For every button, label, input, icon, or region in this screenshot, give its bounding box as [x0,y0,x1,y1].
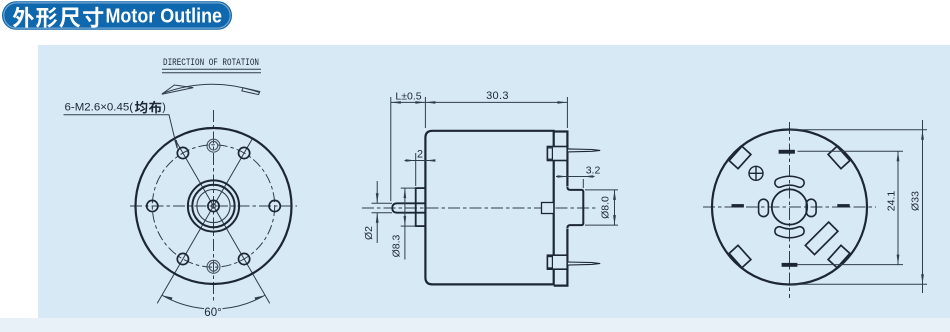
bearing bushing rear (side view) [567,187,583,228]
pilot hole (double circle) [207,260,220,273]
mounting hole M2.6 at 240 deg [177,253,188,264]
svg-text:): ) [162,102,166,114]
svg-text:2: 2 [417,149,423,161]
front view spoke at 60 deg [214,138,254,206]
dimension dia 8.3 (boss) [401,187,416,189]
svg-text:Ø2: Ø2 [363,226,375,240]
shaft (side view) [392,203,425,212]
rotation arrowhead (open) [162,85,194,94]
motor body (side view) [425,131,553,285]
svg-text:DIRECTION OF ROTATION: DIRECTION OF ROTATION [163,58,259,69]
svg-text:6-M2.6×0.45(: 6-M2.6×0.45( [65,102,134,114]
title badge inner highlight [4,3,230,28]
upper-right clip tab [828,146,850,168]
rotation arrow tail flag [242,88,260,95]
front view spoke at 120 deg [174,138,214,206]
bottom terminal clip [547,255,567,269]
front view bolt circle (dash-dot) [152,145,274,267]
rear view horizontal centerline [703,206,876,208]
mounting hole M2.6 at 120 deg [177,147,188,158]
positive terminal mark [749,166,763,180]
front view vertical centerline [213,110,215,302]
bottom curved slot [775,227,804,238]
front view spoke at 240 deg [157,206,213,303]
svg-text:Ø8.0: Ø8.0 [600,196,612,219]
motor flange outer circle (front view) [136,128,292,284]
mounting hole M2.6 at 300 deg [239,253,250,264]
60 degree dimension arc [162,295,204,308]
dimension 30.3 [566,97,568,128]
west vent slot (filled) [732,204,744,207]
side view centerline [362,207,596,209]
light blue drawing panel [38,45,950,318]
dimension 24.1 [797,150,903,152]
dimension 2 (boss length) [415,153,417,186]
svg-text:60°: 60° [204,307,221,319]
front view spoke at 300 deg [214,206,270,303]
lower-right clip tab [828,245,850,267]
rotation direction arc arrow [163,84,260,93]
title badge [2,1,232,30]
mounting hole M2.6 at 60 deg [239,147,250,158]
dimension L+-0.5 [390,97,392,201]
mounting hole M2.6 at 180 deg [147,200,158,211]
shaft boss outer circle [188,180,239,231]
internal bearing rectangle [542,203,554,214]
svg-text:30.3: 30.3 [486,90,509,102]
top terminal clip [547,147,567,161]
lower-left clip tab [729,245,751,267]
double underline [162,68,261,70]
east vent slot (filled) [837,204,849,207]
svg-text:Motor Outline: Motor Outline [106,6,223,28]
upper-left clip tab [729,146,751,168]
right oval slot [806,199,816,216]
leader line for hole label [64,115,178,148]
svg-text:Ø33: Ø33 [910,191,922,211]
mounting hole M2.6 at 0 deg [269,200,280,211]
shaft boss inner circle [197,189,230,222]
shaft boss second circle [192,185,234,227]
bottom light band [0,318,950,332]
svg-text:L±0.5: L±0.5 [395,91,421,103]
dimension dia 2 (shaft) [372,202,393,204]
dimension dia 8.0 (bushing) [585,189,618,191]
top curved slot [775,176,804,187]
front boss (side view) [416,188,426,226]
shaft circle [208,200,219,211]
svg-text:Ø8.3: Ø8.3 [391,234,403,257]
shaft center ring [211,204,215,208]
dimension 3.2 (bushing length) [582,179,584,188]
bottom terminal pin [567,262,600,265]
svg-text:3.2: 3.2 [586,165,601,177]
brush card rectangle (rotated) [805,222,838,255]
rear cover outer circle [712,130,867,285]
front view horizontal centerline [130,205,297,207]
rear view vertical centerline [789,122,791,298]
rear bearing circle [772,189,807,224]
pilot hole (double circle) [207,139,220,152]
top terminal pin [567,149,600,152]
end cap (side view) [554,132,568,286]
svg-text:24.1: 24.1 [886,191,898,212]
title badge CJK text 外形尺寸 [13,7,104,28]
dimension dia 33 [790,129,927,131]
south vent slot (filled) [782,263,798,267]
left oval slot [759,199,769,216]
north vent slot (filled) [779,150,795,154]
